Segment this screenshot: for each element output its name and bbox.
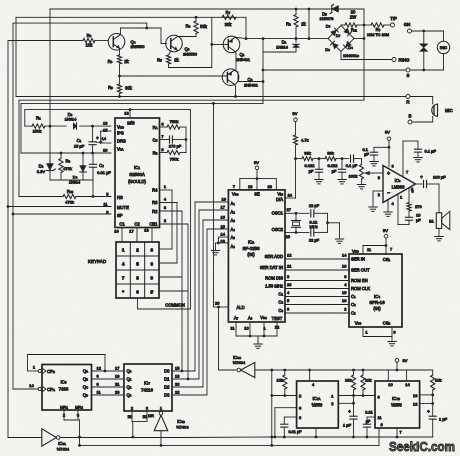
svg-text:12: 12 (97, 365, 102, 370)
svg-text:6: 6 (151, 261, 154, 266)
svg-text:270 pF: 270 pF (169, 144, 182, 149)
svg-text:15: 15 (221, 224, 226, 229)
capacitor C2 0.01uF (92, 153, 94, 164)
capacitor 0.1uF coupling (350, 155, 352, 162)
svg-text:Q3: Q3 (127, 393, 132, 398)
svg-text:R: R (406, 99, 409, 104)
left rail v4 x=19 (18, 100, 20, 196)
svg-text:7493: 7493 (59, 386, 69, 391)
svg-text:IC3: IC3 (395, 178, 401, 183)
svg-text:2N5401: 2N5401 (236, 57, 251, 62)
svg-text:B1: B1 (429, 219, 434, 223)
IC U7B 556 timer B (375, 381, 420, 428)
svg-text:16: 16 (221, 215, 226, 220)
IC U2 SP-0256 speech processor (228, 190, 285, 322)
svg-text:IC7B: IC7B (392, 396, 400, 401)
wire M/S line y=109.6 (25, 109, 191, 111)
feedback QA to CPB (28, 354, 106, 356)
wire pin5 line (272, 395, 297, 397)
IC U7A 556 timer A (297, 381, 339, 428)
svg-text:R7: R7 (226, 10, 231, 15)
resistor R5 2k (169, 51, 172, 56)
svg-text:22 pF: 22 pF (309, 203, 320, 208)
svg-text:(GI): (GI) (247, 252, 255, 257)
svg-text:KEYPAD: KEYPAD (88, 259, 107, 264)
svg-text:D3: D3 (164, 393, 170, 398)
svg-text:53k: 53k (200, 24, 208, 29)
transistor Q2 2N5401 (222, 69, 239, 86)
svg-text:R1: R1 (36, 116, 41, 121)
svg-text:5V: 5V (385, 130, 390, 135)
transistor Q1 2N5401 (223, 36, 240, 53)
pot wiper arrow to pin 3 (369, 172, 384, 174)
capacitor 1uF (x353) (350, 415, 357, 417)
svg-text:1.56 MHz: 1.56 MHz (265, 283, 283, 288)
pin 4 ground (387, 200, 389, 212)
svg-text:VSA: VSA (117, 147, 124, 152)
wire top rail A (+ line) (50, 8, 364, 10)
svg-text:ROM EN: ROM EN (351, 278, 368, 283)
diode bridge D6 D7 D8 D4 1N4001s (328, 26, 354, 52)
svg-text:30k: 30k (225, 22, 233, 27)
svg-text:1 μF: 1 μF (343, 422, 352, 427)
IC U1 S2560A dialer (115, 118, 160, 228)
svg-text:½7404: ½7404 (233, 360, 246, 365)
svg-text:REC: REC (440, 46, 448, 50)
svg-text:VDI: VDI (277, 191, 283, 196)
svg-text:CD: CD (152, 138, 157, 143)
svg-text:1 μF: 1 μF (439, 416, 448, 421)
wire bottom rail 1 (60, 437, 182, 439)
svg-text:5V: 5V (383, 228, 388, 233)
svg-text:1N5379: 1N5379 (319, 16, 334, 21)
wire y=102 line (21, 102, 263, 104)
svg-text:SE: SE (254, 191, 260, 196)
svg-text:R11: R11 (351, 27, 357, 32)
svg-text:½7404: ½7404 (57, 446, 70, 451)
svg-text:17: 17 (221, 205, 226, 210)
svg-text:(GOULD): (GOULD) (128, 179, 146, 184)
svg-text:D2: D2 (164, 385, 170, 390)
diac/neon lamp (423, 31, 425, 44)
svg-text:RING: RING (399, 57, 411, 62)
svg-text:18: 18 (175, 373, 180, 378)
wire R line y=96.5 (16, 96, 406, 98)
svg-text:μF: μF (366, 419, 371, 423)
vertical x=364 (363, 9, 365, 100)
ringer REC (443, 31, 445, 41)
svg-text:19: 19 (248, 184, 253, 189)
svg-text:CS1: CS1 (383, 257, 391, 262)
resistor R8 10k (8, 40, 83, 42)
svg-text:A8: A8 (248, 316, 253, 321)
svg-text:R9: R9 (108, 85, 113, 90)
svg-text:4.7k: 4.7k (301, 138, 309, 143)
IC U7 74116 latch (124, 364, 172, 411)
svg-text:C2: C2 (134, 221, 140, 226)
svg-text:R6: R6 (108, 59, 113, 64)
svg-text:#: # (151, 289, 154, 294)
resistor R3 470k (60, 153, 62, 159)
svg-text:10k: 10k (277, 377, 283, 382)
svg-text:150k: 150k (33, 129, 42, 134)
svg-text:IC7A: IC7A (312, 396, 320, 401)
inverter IC6B 1/6 7404 (160, 410, 162, 413)
svg-text:12: 12 (287, 252, 292, 257)
svg-text:100 μF: 100 μF (433, 174, 446, 179)
svg-text:D4: D4 (348, 45, 353, 50)
svg-text:14: 14 (342, 253, 347, 258)
speaker B1 (436, 213, 441, 229)
svg-text:18: 18 (144, 227, 149, 232)
wire R5 bottom to v211 (169, 67, 212, 69)
IC7B pin7 (396, 428, 398, 437)
svg-text:1: 1 (122, 247, 125, 252)
svg-text:S: S (407, 73, 410, 78)
svg-text:17: 17 (115, 365, 120, 370)
svg-text:D8: D8 (325, 47, 330, 52)
wire S line (263, 69, 406, 71)
svg-text:15: 15 (342, 290, 347, 295)
svg-text:R3: R3 (65, 158, 70, 163)
svg-text:A4: A4 (231, 227, 236, 232)
svg-text:7: 7 (400, 430, 402, 434)
resistor R4 53k (195, 17, 197, 21)
svg-text:17: 17 (129, 228, 134, 233)
wire bridge right to v364 (354, 38, 364, 40)
left rail v1 x=8 (7, 41, 9, 438)
svg-text:C3: C3 (149, 221, 155, 226)
svg-text:2: 2 (136, 247, 139, 252)
svg-text:12: 12 (124, 111, 129, 116)
svg-text:A1: A1 (231, 201, 236, 206)
svg-text:1N914: 1N914 (276, 45, 289, 50)
svg-text:VSS: VSS (260, 315, 267, 320)
resistor R4 10M TO 20M (364, 24, 371, 26)
svg-text:COMMON: COMMON (165, 302, 185, 307)
svg-text:μF: μF (332, 168, 337, 173)
svg-text:33k: 33k (327, 150, 333, 155)
svg-text:20: 20 (215, 300, 220, 305)
svg-text:26: 26 (287, 282, 292, 287)
svg-text:IC1: IC1 (134, 165, 140, 170)
svg-text:R4: R4 (186, 24, 191, 29)
svg-text:74116: 74116 (141, 388, 153, 393)
pot 100k (361, 159, 363, 165)
svg-text:5V: 5V (254, 160, 259, 165)
svg-text:R4: R4 (376, 27, 381, 32)
resistor 750k (RB) (160, 152, 168, 154)
inverter IC6A 1/6 7404 (8, 437, 42, 439)
pin3 wire + 0.01uF (284, 416, 296, 418)
zener D5 1N5379 on rail A (332, 6, 339, 13)
svg-text:18: 18 (222, 197, 227, 202)
wire Q1 emitter junction (235, 37, 246, 38)
svg-text:C2: C2 (99, 163, 104, 168)
svg-text:21: 21 (115, 381, 120, 386)
wire main y=38.6 line (246, 38, 328, 40)
left rail v2 x=13 (12, 23, 14, 389)
svg-text:21: 21 (287, 263, 292, 268)
svg-text:VDD: VDD (117, 124, 124, 129)
svg-text:10: 10 (103, 147, 108, 152)
feedback verticals to D0/D1 (181, 277, 183, 371)
svg-text:A2: A2 (231, 210, 236, 215)
svg-text:C2: C2 (278, 299, 283, 304)
svg-text:14: 14 (221, 232, 226, 237)
capacitor 10uF (405, 216, 412, 218)
svg-text:C1: C1 (351, 294, 356, 299)
svg-text:QB: QB (83, 377, 88, 382)
wire Q1 collector to Q2 (235, 51, 236, 53)
svg-text:D7: D7 (336, 33, 341, 38)
svg-text:0.1 μF: 0.1 μF (425, 148, 437, 153)
svg-text:½556: ½556 (312, 403, 323, 408)
terminal B (408, 120, 412, 124)
vertical x=263 Q2 emitter net (262, 39, 264, 104)
svg-text:A6: A6 (231, 244, 236, 249)
op-amp IC3 LM386 (383, 166, 416, 203)
svg-text:16: 16 (342, 298, 347, 303)
bus A2/D1 (199, 209, 228, 211)
terminal GN (408, 29, 412, 33)
svg-text:14: 14 (405, 382, 410, 387)
svg-text:MR1: MR1 (60, 405, 68, 410)
wire COMMON (137, 298, 139, 309)
svg-text:0.022: 0.022 (304, 163, 315, 168)
svg-text:100k: 100k (349, 174, 358, 179)
svg-text:+: + (387, 171, 390, 177)
diode D3 1N914 (73, 123, 76, 129)
svg-text:D1: D1 (164, 377, 170, 382)
svg-text:Q0: Q0 (127, 369, 132, 374)
zener D2 3.9V (49, 158, 51, 163)
svg-text:OSC1: OSC1 (272, 211, 284, 216)
resistor R2 2k (295, 9, 297, 15)
svg-text:LM386: LM386 (392, 184, 405, 189)
capacitor 1uF (right) (429, 415, 436, 417)
svg-text:1N914: 1N914 (69, 180, 80, 184)
svg-text:10k: 10k (86, 43, 94, 48)
svg-text:ROM DIS: ROM DIS (265, 275, 283, 280)
svg-text:D0: D0 (164, 369, 170, 374)
svg-text:0.01: 0.01 (365, 411, 372, 415)
svg-text:C1: C1 (119, 221, 125, 226)
svg-text:2N5401: 2N5401 (244, 83, 259, 88)
wire pin1-pin6 556 (338, 395, 375, 397)
svg-text:R8: R8 (87, 33, 92, 38)
svg-text:14: 14 (29, 383, 34, 388)
svg-text:R2: R2 (286, 22, 291, 27)
IC U4 SPR-16 speech ROM (349, 254, 402, 327)
wire MUTE line (7, 205, 10, 208)
pin 13/12 wires (420, 394, 433, 396)
svg-text:A7: A7 (234, 316, 239, 321)
capacitor 0.022uF #1 (318, 159, 320, 170)
wire pin13 line / resistor R1 150k (25, 125, 32, 127)
svg-text:5V: 5V (403, 358, 408, 363)
svg-text:C3: C3 (278, 308, 283, 313)
svg-text:12: 12 (413, 402, 418, 407)
diode D1 1N914 (295, 39, 297, 43)
svg-text:SER DAT IN: SER DAT IN (260, 265, 283, 270)
svg-text:15: 15 (175, 365, 180, 370)
terminal TIP (391, 23, 395, 27)
svg-text:0.01 μF: 0.01 μF (97, 170, 111, 175)
svg-text:10k: 10k (345, 377, 351, 382)
inverter IC6C 1/6 7404 (241, 363, 255, 378)
svg-text:3: 3 (151, 247, 154, 252)
vertical x=309 from rail A (308, 9, 310, 39)
resistor 10k (x363) (362, 370, 364, 375)
svg-text:D/A: D/A (276, 197, 283, 202)
svg-text:13: 13 (413, 393, 418, 398)
svg-text:RA: RA (153, 125, 158, 130)
keypad 3x4 matrix (116, 242, 159, 298)
diode D4 1N914 (82, 153, 84, 165)
svg-text:TEST: TEST (272, 316, 283, 321)
svg-text:10k: 10k (435, 377, 441, 382)
vertical IC6C input to bottom (271, 370, 273, 445)
svg-text:*: * (122, 289, 124, 294)
left rail v5 x=21 (20, 103, 22, 153)
svg-text:15: 15 (103, 128, 108, 133)
svg-text:750k: 750k (170, 157, 179, 162)
svg-text:10: 10 (244, 325, 249, 330)
svg-text:R10: R10 (67, 189, 74, 194)
pin 11 wire + 0.01uF (367, 416, 375, 418)
svg-text:470k: 470k (65, 199, 74, 204)
pin 1 gain (397, 194, 399, 225)
svg-text:24: 24 (288, 193, 293, 198)
capacitor 0.022uF #2 (341, 159, 343, 170)
wire rail B (16, 16, 246, 18)
svg-text:OSC2: OSC2 (272, 227, 284, 232)
svg-text:8: 8 (136, 275, 139, 280)
svg-text:1N4001s: 1N4001s (343, 53, 359, 58)
svg-text:19: 19 (115, 373, 120, 378)
svg-text:R2: R2 (152, 209, 158, 214)
svg-text:1N914: 1N914 (65, 116, 78, 121)
svg-text:7: 7 (122, 275, 125, 280)
svg-text:B: B (409, 113, 412, 118)
svg-text:0: 0 (136, 289, 139, 294)
svg-text:33k: 33k (304, 150, 310, 155)
svg-text:VDD: VDD (352, 248, 359, 253)
svg-text:28: 28 (286, 234, 291, 239)
filter line / resistor 33k #1 (302, 157, 313, 161)
resistor R6 2k (119, 49, 121, 55)
svg-text:R4: R4 (152, 188, 158, 193)
svg-text:½556: ½556 (391, 403, 402, 408)
capacitor 22pF bottom (310, 229, 312, 236)
svg-text:CPB: CPB (47, 369, 55, 374)
pin 2 to ground (373, 190, 383, 192)
svg-text:470k: 470k (63, 166, 72, 171)
svg-text:R3: R3 (152, 200, 158, 205)
svg-text:S2560A: S2560A (129, 172, 145, 177)
wire sub bottom y=180 (50, 179, 93, 181)
svg-text:QD: QD (83, 393, 88, 398)
svg-text:10: 10 (388, 382, 393, 387)
resistor 33k #2 (325, 157, 336, 161)
svg-text:μF: μF (364, 152, 369, 157)
wire Q2 collector down (234, 84, 236, 86)
svg-text:9: 9 (151, 275, 154, 280)
svg-text:SER ADD: SER ADD (265, 254, 283, 259)
svg-text:QA: QA (83, 369, 88, 374)
svg-text:μF: μF (416, 217, 421, 222)
terminal R (406, 95, 410, 99)
left rail v3 x=16 (15, 17, 17, 96)
vertical x=50 rail (49, 9, 51, 163)
svg-text:ALD: ALD (237, 305, 245, 310)
vertical x=213.5 to ALD (213, 103, 215, 307)
CPB input pin 1 (38, 369, 41, 372)
bus A4/D3 (207, 228, 228, 230)
svg-text:QC: QC (83, 385, 88, 390)
svg-text:A5: A5 (231, 235, 236, 240)
svg-text:GN: GN (404, 22, 411, 27)
svg-text:MR2: MR2 (75, 405, 83, 410)
wire rail C (13, 22, 147, 24)
svg-text:M/S: M/S (127, 120, 135, 125)
keypad row wires (159, 248, 172, 250)
microphone MIC (432, 97, 434, 105)
svg-text:IC4: IC4 (374, 294, 380, 299)
svg-text:27: 27 (287, 207, 292, 212)
wire Q2 emitter right (234, 71, 238, 73)
svg-text:DRS: DRS (117, 138, 126, 143)
svg-text:IPS: IPS (117, 130, 124, 135)
wire HS line / resistor R10 470k (19, 196, 63, 198)
svg-text:16: 16 (114, 228, 119, 233)
svg-text:SeekIC.com: SeekIC.com (389, 439, 455, 454)
svg-text:14: 14 (102, 136, 107, 141)
svg-text:C1: C1 (77, 138, 82, 143)
svg-text:15 μF: 15 μF (74, 144, 85, 149)
svg-text:Q1: Q1 (127, 377, 132, 382)
svg-text:0.01 μF: 0.01 μF (289, 430, 303, 434)
svg-text:2N5550: 2N5550 (130, 44, 145, 49)
transistor Q4 2N5550 (108, 34, 125, 51)
svg-text:(GI): (GI) (373, 306, 381, 311)
svg-text:2W: 2W (350, 15, 356, 20)
svg-text:SER OUT: SER OUT (351, 267, 370, 272)
resistor R7 30k (222, 15, 236, 19)
svg-text:μF: μF (309, 168, 314, 173)
capacitor 22pF top (310, 210, 312, 217)
resistor 10k (x353) (353, 370, 355, 375)
wire y=100 line (19, 99, 364, 101)
capacitor 100uF (423, 180, 425, 187)
svg-text:C2: C2 (351, 302, 356, 307)
wire Q2 base line y=76 (118, 75, 121, 78)
capacitor C1 15uF (92, 126, 94, 142)
svg-text:0.1 μF: 0.1 μF (346, 163, 358, 168)
svg-text:5: 5 (136, 261, 139, 266)
svg-text:IC7: IC7 (144, 380, 150, 385)
resistor 4.7k (293, 135, 297, 145)
CPA input pin 14 (38, 387, 41, 390)
svg-text:23: 23 (115, 389, 120, 394)
svg-text:10: 10 (342, 264, 347, 269)
wire pin2 (338, 402, 353, 404)
pin6 wire (275, 407, 297, 409)
svg-text:SER IN: SER IN (351, 256, 365, 261)
wire RING line (340, 52, 342, 60)
svg-text:10M TO 20M: 10M TO 20M (367, 33, 389, 37)
